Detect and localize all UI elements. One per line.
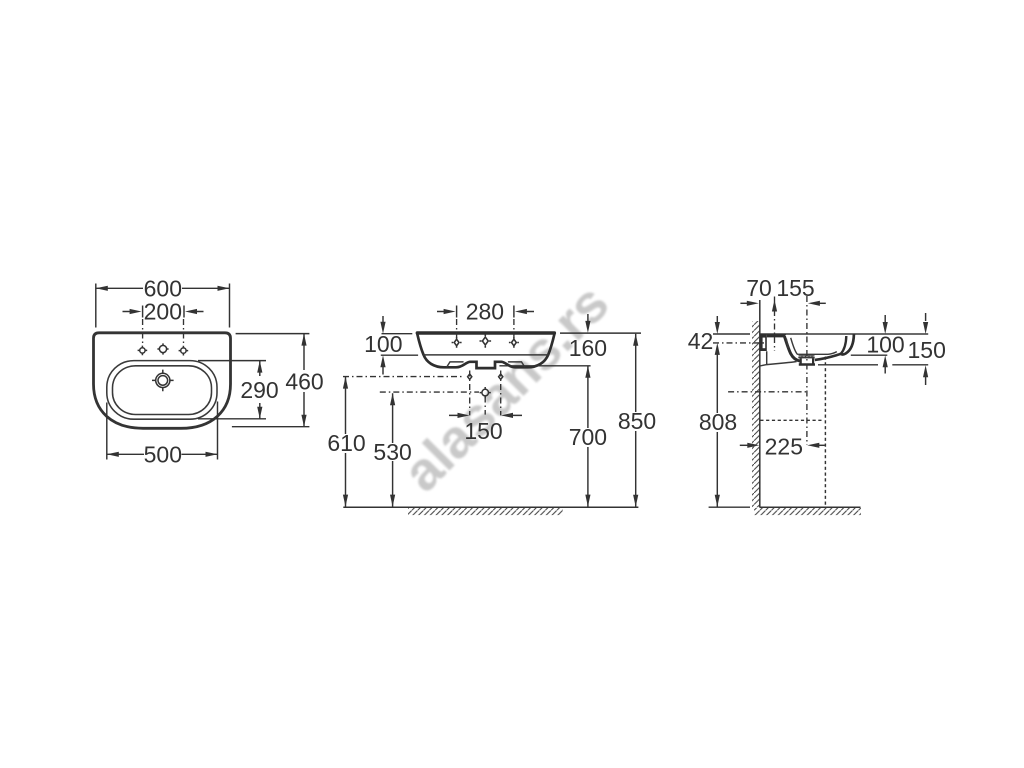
- faucet hole front right: [509, 337, 519, 348]
- dimension 808: [716, 353, 718, 507]
- svg-text:500: 500: [144, 441, 182, 467]
- svg-text:225: 225: [765, 434, 803, 460]
- floor line (side view): [760, 506, 861, 508]
- side profile: bowl underside: [815, 354, 842, 360]
- drain dash-dot horizontal (530 level): [380, 391, 479, 393]
- basin bowl oval: [113, 366, 212, 415]
- svg-text:808: 808: [699, 409, 737, 435]
- 808 floor reference line: [709, 506, 750, 508]
- svg-text:160: 160: [569, 335, 607, 361]
- 42 arrows: [716, 316, 718, 323]
- dimension 610: [345, 377, 347, 507]
- svg-text:100: 100: [866, 331, 904, 357]
- svg-text:alasans.rs: alasans.rs: [392, 273, 621, 503]
- svg-text:290: 290: [240, 377, 278, 403]
- mounting hole dash-dot horizontal (610 level): [343, 376, 464, 378]
- side profile: faucet deck top: [767, 334, 786, 337]
- side profile: bowl inner rim: [841, 336, 846, 354]
- side profile: deck front edge: [784, 336, 800, 361]
- svg-text:155: 155: [776, 275, 814, 301]
- extension lines for 500: [107, 402, 218, 460]
- svg-text:610: 610: [327, 430, 365, 456]
- side profile: bracket lower: [760, 351, 797, 366]
- tap hole center: [157, 343, 168, 354]
- up arrow at faucet line: [772, 300, 777, 312]
- svg-text:280: 280: [466, 298, 504, 324]
- faucet hole front center: [480, 334, 492, 347]
- vertical dash-dot from mounting holes: [470, 371, 501, 416]
- dimension 700: [587, 366, 589, 507]
- drain centre dash-dot vertical (side): [806, 296, 808, 445]
- svg-text:42: 42: [688, 328, 714, 354]
- 42 top reference line: [713, 333, 750, 335]
- svg-text:530: 530: [373, 439, 411, 465]
- basin rim oval: [107, 361, 217, 420]
- side profile: void inner edge: [786, 339, 788, 349]
- svg-text:150: 150: [464, 418, 502, 444]
- side profile: drain flange lines: [798, 356, 814, 358]
- mounting hole left (front): [468, 374, 472, 379]
- extension lines for 460: [232, 334, 310, 427]
- basin outer outline (top view): [94, 333, 231, 429]
- dimension 850: [635, 334, 637, 507]
- dimension 500: [107, 453, 217, 455]
- wall hatch band: [752, 321, 760, 507]
- dimension 460: [303, 334, 305, 427]
- extension lines for 290: [198, 361, 266, 419]
- dimension 160 arrow: [587, 314, 589, 322]
- 42 dash-dot line: [713, 342, 766, 344]
- dash-dot horizontal 530 level (side): [728, 391, 807, 393]
- floor hatch (front view): [408, 508, 563, 515]
- extension line 100 left: [381, 334, 418, 356]
- floor hatch (side view): [754, 508, 861, 515]
- svg-text:150: 150: [908, 337, 946, 363]
- dimension 530: [392, 393, 394, 506]
- svg-text:100: 100: [364, 331, 402, 357]
- front ledge details: [447, 362, 525, 367]
- dimension 100 arrows (mid): [382, 316, 384, 375]
- svg-text:700: 700: [569, 424, 607, 450]
- dimension 200: [123, 306, 204, 318]
- faucet dash-dot vertical (side): [774, 297, 776, 352]
- extension line drain bottom: [499, 365, 590, 367]
- extension top line (850/160): [560, 332, 641, 334]
- drain centre symbol (front): [480, 387, 491, 398]
- mounting hole right (front): [499, 374, 503, 379]
- drain pipe dashed vertical: [824, 357, 826, 506]
- tap hole left: [138, 346, 148, 356]
- dimension 290: [259, 361, 261, 419]
- dimension 600: [96, 284, 230, 328]
- floor line (front view): [343, 506, 638, 508]
- dimension 280: [457, 306, 514, 318]
- side profile: bowl surface line: [791, 338, 837, 355]
- watermark alasans.rs: [392, 273, 621, 503]
- svg-text:200: 200: [144, 299, 182, 325]
- basin front lip line: [424, 354, 548, 356]
- side profile: drain body: [801, 358, 813, 363]
- svg-text:850: 850: [618, 408, 656, 434]
- tap hole right: [179, 346, 189, 356]
- faucet centre dash-dot lines (top view): [143, 319, 184, 346]
- side profile: wall bracket: [760, 334, 767, 351]
- dimension 150 (front): [449, 414, 522, 416]
- basin front outline: [417, 333, 554, 368]
- basin top line (side view): [760, 333, 928, 335]
- svg-text:460: 460: [285, 368, 323, 394]
- faucet dash-dot lines front: [457, 319, 514, 338]
- trap dashed horizontal: [760, 419, 823, 421]
- wall face line: [759, 300, 761, 507]
- side profile: back lip outer: [841, 334, 854, 354]
- svg-text:600: 600: [144, 275, 182, 301]
- drain symbol top view: [152, 370, 174, 392]
- svg-text:70: 70: [746, 275, 772, 301]
- faucet hole front left: [452, 337, 462, 348]
